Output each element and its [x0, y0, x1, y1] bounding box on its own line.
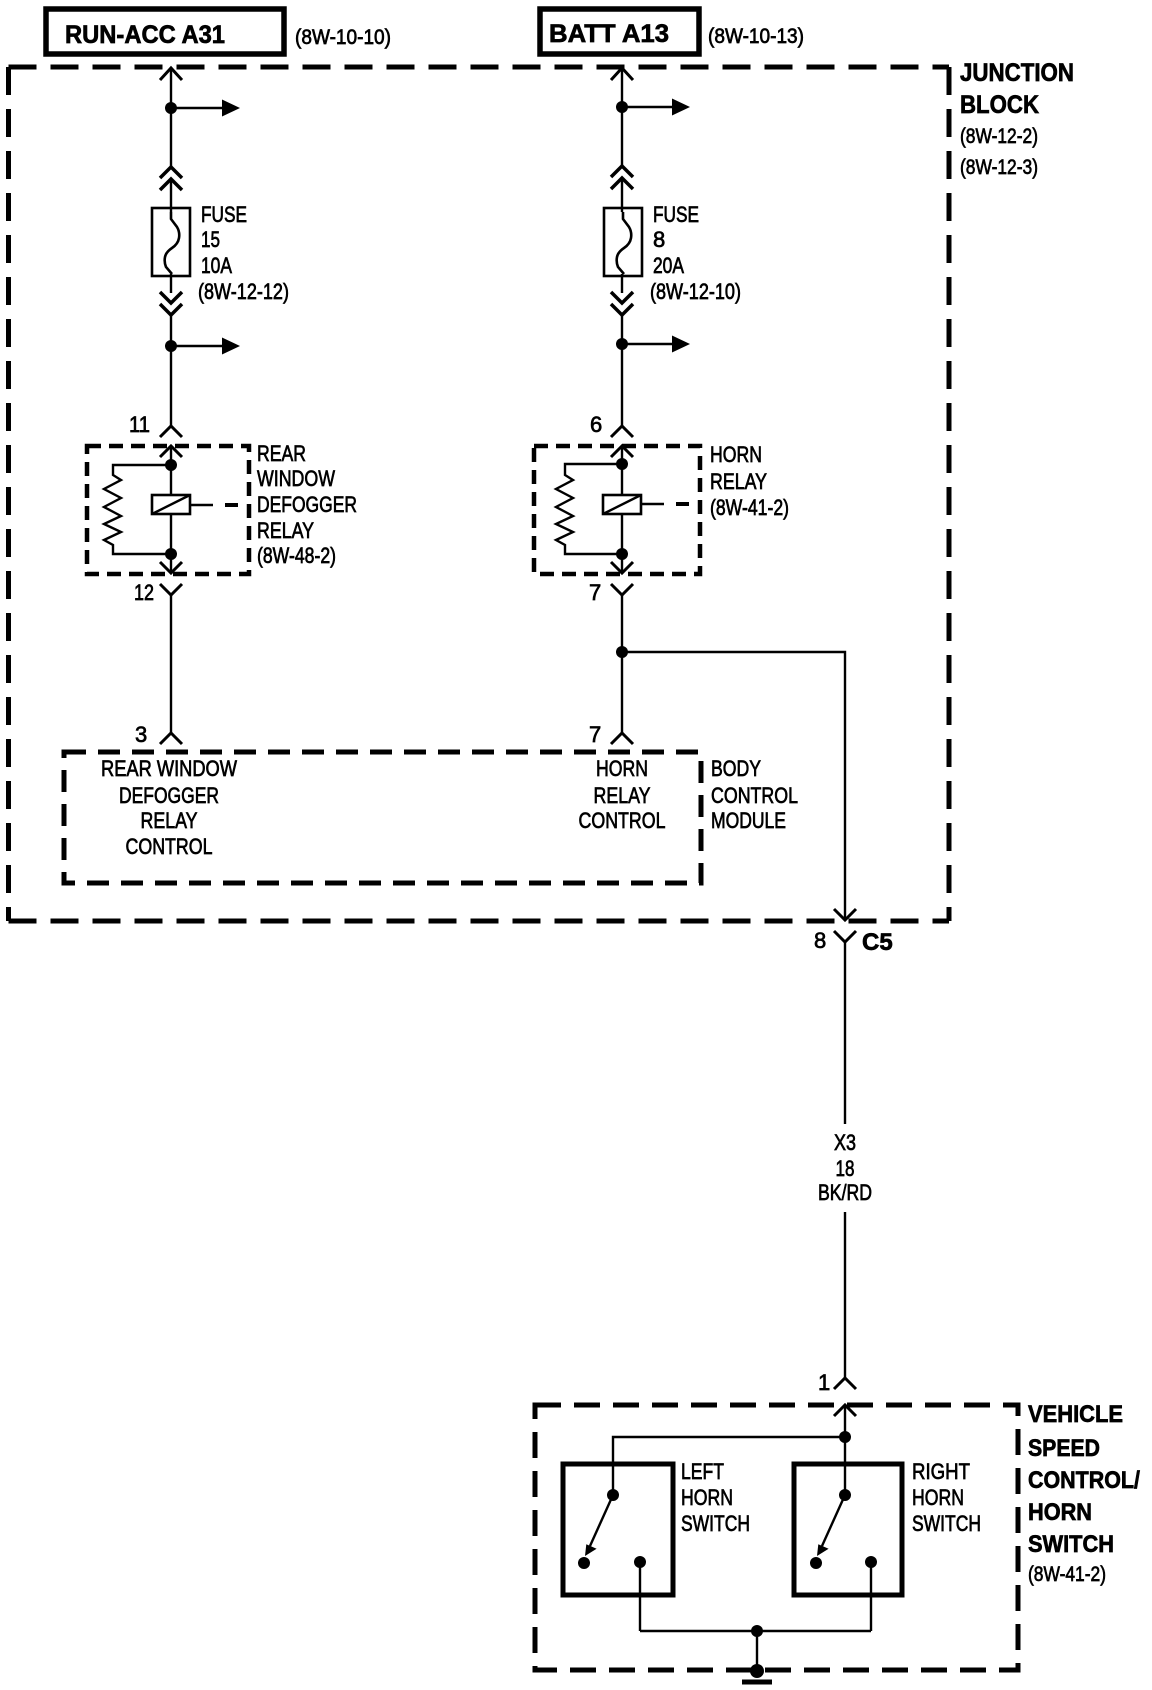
wire: through coil: [170, 465, 172, 554]
node: switch feed splice: [839, 1431, 851, 1443]
svg-text:RUN-ACC A31: RUN-ACC A31: [65, 21, 225, 49]
svg-text:HORN: HORN: [1028, 1499, 1092, 1526]
svg-text:12: 12: [134, 580, 154, 605]
svg-text:CONTROL: CONTROL: [126, 834, 213, 859]
rear window defogger relay dashed box: [87, 446, 249, 574]
svg-text:(8W-12-2): (8W-12-2): [960, 125, 1038, 148]
svg-text:REAR WINDOW: REAR WINDOW: [101, 756, 237, 781]
pin 7 connector (BCM): [589, 722, 633, 747]
body control module dashed box: [64, 752, 701, 883]
wire: through coil: [621, 464, 623, 554]
connector pass-through chevrons (up): [611, 166, 633, 189]
wire: BATT feed entering junction block: [611, 68, 633, 107]
left horn switch box: [563, 1464, 673, 1595]
wire: branch right to junction block connector C5: [622, 652, 845, 920]
right horn switch contacts: [810, 1489, 877, 1569]
wire: into fuse 15: [170, 181, 172, 212]
power feed box BATT A13: [540, 9, 699, 54]
BCM input label: horn relay control: [579, 756, 666, 833]
left horn switch label: [681, 1459, 750, 1536]
fuse 15 (10A): [152, 208, 190, 276]
wire: relay feed to coil node: [170, 446, 172, 465]
svg-text:HORN: HORN: [710, 442, 762, 467]
svg-text:8: 8: [653, 227, 665, 252]
right horn switch box: [794, 1464, 902, 1595]
wire: down to relay pin 6: [621, 344, 623, 426]
svg-text:SWITCH: SWITCH: [681, 1511, 750, 1536]
svg-text:1: 1: [818, 1370, 830, 1395]
wire: horn relay control down: [621, 595, 623, 733]
connector C5 pin 8 at junction block exit: [814, 909, 893, 956]
connector pass-through chevrons (down): [160, 292, 182, 315]
pin 3 connector: [135, 722, 182, 747]
resistor (relay suppression), left branch: [104, 465, 171, 554]
resistor (horn relay suppression), left branch: [556, 464, 622, 554]
svg-text:SPEED: SPEED: [1028, 1435, 1100, 1462]
pin 6 connector: [590, 412, 633, 457]
svg-text:CONTROL: CONTROL: [579, 808, 666, 833]
svg-text:7: 7: [589, 722, 601, 747]
node: splice on BATT feed: [616, 101, 628, 113]
fuse 8 labels: [650, 202, 741, 304]
node: splice after fuse 15: [165, 340, 177, 352]
svg-text:DEFOGGER: DEFOGGER: [119, 783, 219, 808]
svg-text:(8W-12-12): (8W-12-12): [198, 279, 289, 304]
wire: branch arrow right from splice: [622, 336, 690, 353]
svg-text:HORN: HORN: [912, 1485, 964, 1510]
svg-text:(8W-10-10): (8W-10-10): [295, 26, 391, 49]
wire: branch arrow right from splice: [622, 99, 690, 116]
wire: relay feed to coil node: [621, 446, 623, 464]
wire: relay control to BCM pin 3: [170, 595, 172, 733]
svg-text:(8W-12-10): (8W-12-10): [650, 279, 741, 304]
fuse 8 (20A): [604, 208, 642, 276]
pin 7 connector (relay): [589, 554, 633, 605]
svg-text:8: 8: [814, 928, 826, 953]
pin 12 connector: [134, 554, 182, 605]
wire: down to right horn switch: [844, 1437, 846, 1495]
svg-text:(8W-41-2): (8W-41-2): [710, 495, 789, 520]
wire: branch to left horn switch: [613, 1437, 845, 1495]
wire: down to splice: [621, 315, 623, 344]
svg-text:CONTROL/: CONTROL/: [1028, 1467, 1140, 1494]
node: ground splice: [751, 1625, 763, 1637]
svg-text:RIGHT: RIGHT: [912, 1459, 970, 1484]
wire X3 18 BK/RD lower segment: [844, 1212, 846, 1378]
pin 1 connector (horn switch): [818, 1370, 856, 1416]
wire: down to connector chevrons: [621, 107, 623, 166]
wire: down to relay pin 11: [170, 346, 172, 426]
horn relay coil: [603, 495, 689, 514]
svg-text:RELAY: RELAY: [141, 808, 198, 833]
svg-text:HORN: HORN: [681, 1485, 733, 1510]
wire: branch arrow right from splice: [171, 100, 240, 117]
svg-text:HORN: HORN: [596, 756, 648, 781]
power feed box RUN-ACC A31: [46, 9, 284, 54]
svg-text:15: 15: [201, 227, 220, 252]
node: splice on RUN-ACC feed: [165, 102, 177, 114]
svg-text:X3: X3: [834, 1130, 856, 1155]
relay label: [257, 441, 357, 568]
svg-text:RELAY: RELAY: [594, 783, 651, 808]
node: relay top junction: [165, 459, 177, 471]
svg-text:(8W-48-2): (8W-48-2): [257, 543, 336, 568]
wire: branch arrow right from splice: [171, 338, 240, 355]
wire X3 18 BK/RD upper segment: [844, 952, 846, 1124]
svg-text:(8W-10-13): (8W-10-13): [708, 25, 804, 48]
BCM input label: rear window defogger relay control: [101, 756, 237, 859]
svg-text:BATT A13: BATT A13: [549, 20, 669, 48]
ground: [742, 1664, 772, 1682]
wire: down to splice: [170, 315, 172, 346]
svg-text:6: 6: [590, 412, 602, 437]
node: splice to C5 branch: [616, 646, 628, 658]
wire: into fuse 8: [621, 180, 623, 212]
pin 11 connector: [129, 412, 182, 457]
svg-text:3: 3: [135, 722, 147, 747]
svg-text:11: 11: [129, 412, 150, 437]
svg-text:BODY: BODY: [711, 756, 761, 781]
node: splice after fuse 8: [616, 338, 628, 350]
node: horn relay top junction: [616, 458, 628, 470]
svg-text:SWITCH: SWITCH: [912, 1511, 981, 1536]
svg-text:RELAY: RELAY: [257, 518, 314, 543]
svg-text:CONTROL: CONTROL: [711, 783, 798, 808]
fuse 15 labels: [198, 202, 289, 304]
svg-text:10A: 10A: [201, 253, 232, 278]
wire: down to ground: [756, 1631, 758, 1671]
svg-text:C5: C5: [862, 929, 893, 956]
wire: common ground bus: [640, 1630, 871, 1632]
svg-text:WINDOW: WINDOW: [257, 466, 335, 491]
connector pass-through chevrons (down): [611, 292, 633, 315]
wire label X3 18 BK/RD: [818, 1130, 872, 1205]
svg-text:MODULE: MODULE: [711, 808, 786, 833]
node: relay bottom junction: [165, 548, 177, 560]
junction block label: [960, 59, 1074, 179]
svg-text:(8W-41-2): (8W-41-2): [1028, 1563, 1106, 1586]
vehicle speed control / horn switch dashed box: [535, 1405, 1018, 1670]
relay coil K1: [152, 495, 238, 514]
svg-text:FUSE: FUSE: [201, 202, 247, 227]
left horn switch contacts: [578, 1489, 646, 1569]
module title label: [1028, 1401, 1140, 1586]
wire: right switch output down: [870, 1562, 872, 1631]
wire: out of fuse 15: [170, 274, 172, 293]
svg-text:DEFOGGER: DEFOGGER: [257, 492, 357, 517]
svg-text:JUNCTION: JUNCTION: [960, 59, 1074, 87]
wire: left switch output down: [639, 1562, 641, 1631]
junction block dashed border: [9, 67, 950, 921]
svg-text:RELAY: RELAY: [710, 469, 767, 494]
svg-text:REAR: REAR: [257, 441, 306, 466]
svg-text:SWITCH: SWITCH: [1028, 1531, 1114, 1558]
svg-text:20A: 20A: [653, 253, 684, 278]
svg-text:7: 7: [589, 580, 601, 605]
horn relay dashed box: [534, 446, 700, 574]
svg-text:LEFT: LEFT: [681, 1459, 724, 1484]
svg-text:VEHICLE: VEHICLE: [1028, 1401, 1123, 1428]
svg-text:BLOCK: BLOCK: [960, 91, 1039, 119]
wire: out of fuse 8: [621, 274, 623, 293]
svg-text:18: 18: [836, 1156, 855, 1181]
right horn switch label: [912, 1459, 981, 1536]
node: horn relay bottom junction: [616, 548, 628, 560]
wire: RUN-ACC feed entering junction block: [160, 68, 182, 108]
wire: down to connector chevrons: [170, 108, 172, 167]
svg-text:(8W-12-3): (8W-12-3): [960, 156, 1038, 179]
BCM name label: [711, 756, 798, 833]
connector pass-through chevrons (up): [160, 167, 182, 190]
svg-text:BK/RD: BK/RD: [818, 1180, 872, 1205]
svg-text:FUSE: FUSE: [653, 202, 699, 227]
wire: feed into switches: [844, 1405, 846, 1437]
horn relay label: [710, 442, 789, 520]
